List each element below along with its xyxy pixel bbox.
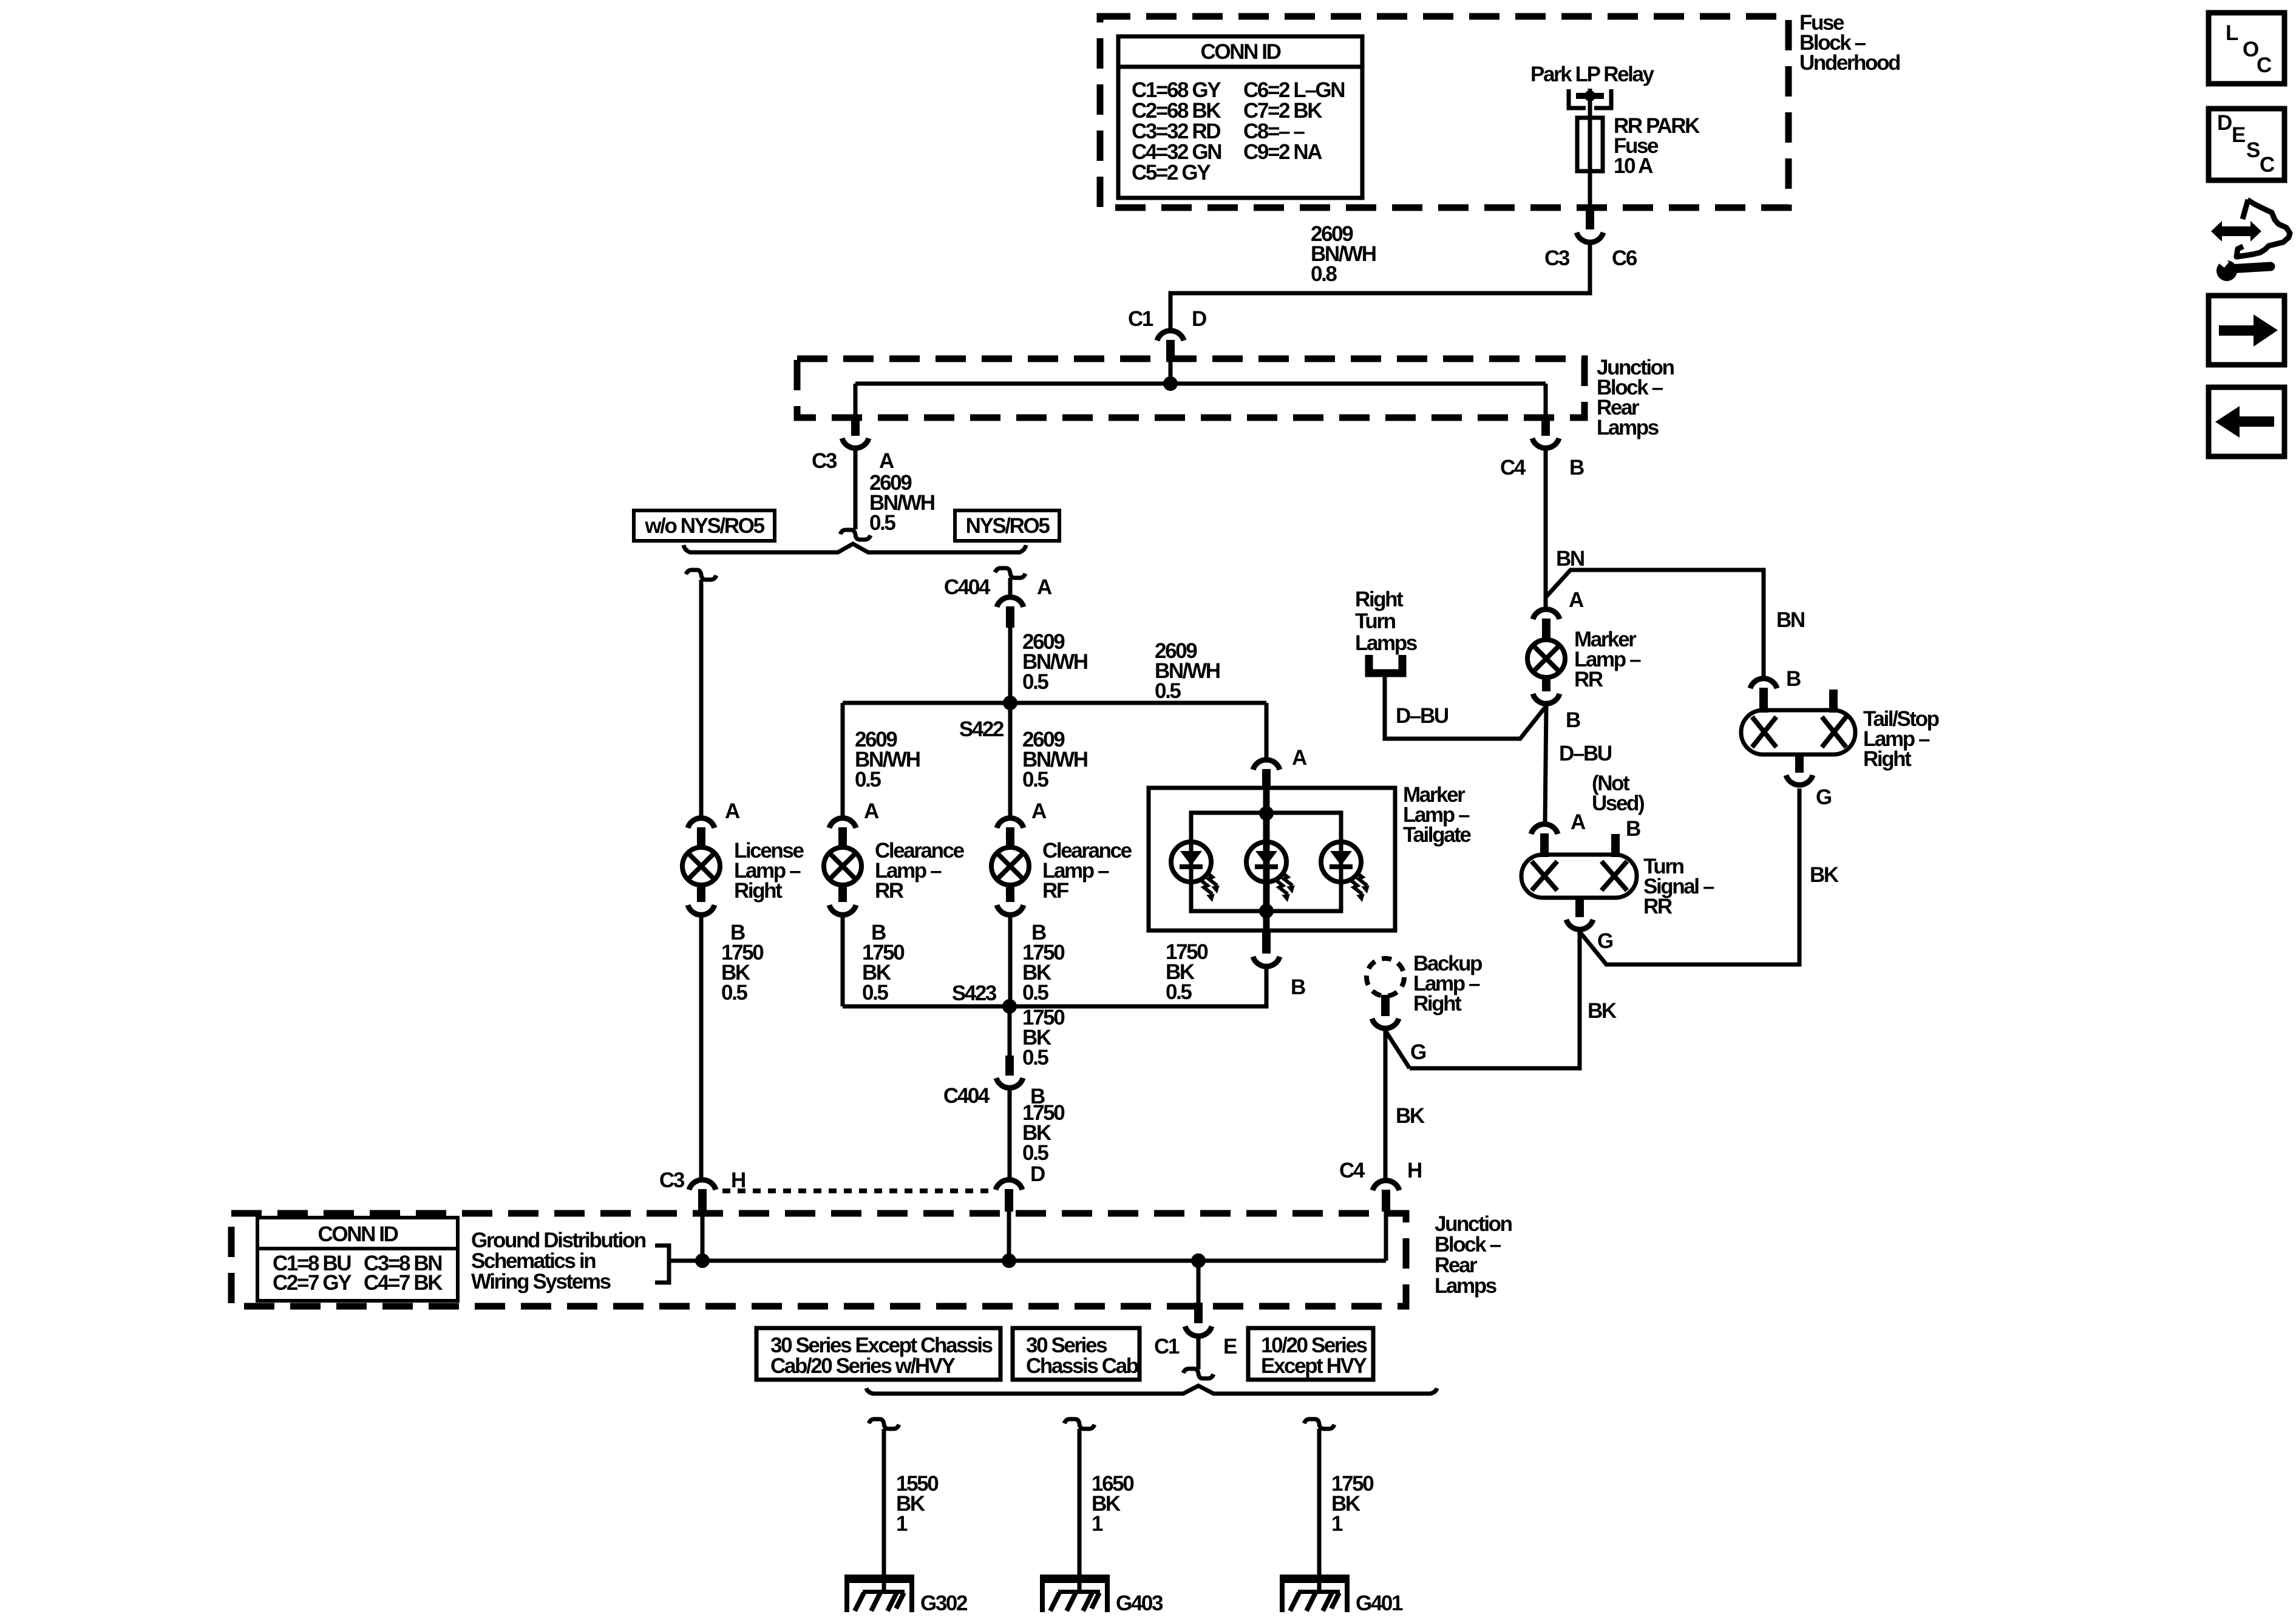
svg-text:G403: G403 [1116,1592,1163,1615]
svg-text:0.5: 0.5 [1166,980,1192,1004]
LED emission arrows [1356,872,1367,886]
svg-text:A: A [1031,799,1047,823]
svg-text:C4: C4 [1500,456,1526,480]
svg-text:C3: C3 [812,449,837,473]
break on ground branch G401 [1304,1419,1334,1429]
LED lamp element at x=1962 [1171,842,1211,882]
inter-connector dotted line C3/H to C404/D [722,1188,993,1193]
ground G403 [1040,1575,1110,1579]
svg-text:RR: RR [875,879,904,903]
break before option split [840,530,871,540]
junction block - rear lamps (top dashed enclosure) [797,359,1584,418]
svg-text:C4: C4 [1339,1159,1365,1182]
lamp License Lamp - Right [688,818,715,828]
svg-text:D: D [1192,307,1206,331]
break on ground branch G302 [869,1419,899,1429]
svg-text:Right: Right [734,879,783,903]
svg-text:A: A [725,799,740,823]
svg-text:Turn: Turn [1355,609,1396,633]
svg-text:G401: G401 [1356,1592,1403,1615]
splice S422 [1003,696,1017,710]
break below C1/E [1183,1369,1214,1378]
wire S422 down to clearance lamp RF [1008,703,1013,816]
svg-text:A: A [1037,575,1052,599]
icon previous-page arrow (left) [2209,387,2284,456]
ground G401 [1280,1575,1350,1579]
wire C4/B down to marker lamp RR (BN) [1544,450,1548,608]
fuse block - underhood (dashed enclosure) [1100,16,1788,208]
svg-text:BN: BN [1556,547,1584,571]
svg-text:G: G [1816,785,1832,809]
pin stub right (tail/stop) [1829,690,1838,713]
svg-text:E: E [1223,1335,1237,1358]
svg-text:C1: C1 [1128,307,1153,331]
svg-text:G302: G302 [920,1592,968,1615]
svg-text:0.8: 0.8 [1311,262,1337,286]
svg-text:CONN ID: CONN ID [1201,40,1281,64]
node at C3/H [695,1253,710,1268]
svg-text:G: G [1597,929,1613,953]
wire marker RR to turn signal A (D-BU) [1545,706,1546,822]
svg-text:BK: BK [1396,1104,1425,1128]
svg-text:0.5: 0.5 [1022,1046,1048,1070]
reference bracket to ground distribution [655,1246,669,1283]
svg-text:0.5: 0.5 [1022,670,1048,694]
svg-text:A: A [879,449,894,473]
svg-text:S422: S422 [959,717,1004,741]
wire backup G to BK net [1385,1031,1410,1068]
svg-text:Underhood: Underhood [1799,51,1900,75]
ground G302 [844,1575,914,1579]
wire 1650 BK 1 to G403 [1078,1429,1082,1591]
connector A turn signal RR [1531,824,1558,834]
lamp Tail/Stop Lamp - Right (dual filament) [1741,710,1855,754]
svg-text:Tailgate: Tailgate [1403,823,1471,847]
svg-text:RF: RF [1042,879,1069,903]
svg-text:Right: Right [1413,992,1462,1015]
svg-text:C6: C6 [1612,246,1637,270]
icon LOC box [2209,13,2284,84]
option label box 30 Series Except Chassis Cab/20 Series w/HVY [756,1328,1000,1380]
wire bus to C4/B exit [1544,384,1548,418]
LED lamp element at x=2086 [1246,842,1286,882]
option split bracket (w/o NYS/RO5 vs NYS/RO5) [684,544,1026,552]
svg-text:Cab/20 Series w/HVY: Cab/20 Series w/HVY [770,1354,956,1378]
connector G backup lamp [1381,995,1390,1016]
break on right option branch [995,568,1025,578]
CONN ID table (fuse block) [1118,36,1362,198]
svg-text:BK: BK [1588,999,1617,1023]
junction block - rear lamps (bottom dashed enclosure) [231,1213,1406,1306]
svg-text:B: B [1626,817,1640,841]
wire splice branch S422 horizontal [843,701,1266,705]
svg-text:Except HVY: Except HVY [1261,1354,1367,1378]
fuse RR PARK 10 A [1588,118,1592,171]
svg-text:B: B [1291,975,1305,999]
svg-text:C: C [2260,153,2275,177]
svg-text:C404: C404 [943,1084,990,1108]
off-page connector Right Turn Lamps [1369,655,1402,673]
node at C1/E drop [1191,1253,1206,1268]
connector A marker lamp tailgate [1253,760,1280,770]
option label box NYS/RO5 [955,510,1059,541]
svg-text:C1: C1 [1154,1335,1180,1358]
icon next-page arrow (right) [2209,296,2284,365]
svg-text:C2=7 GY: C2=7 GY [273,1271,352,1295]
connector C4/B (junction block output right) [1541,416,1550,436]
wire C4/H to ground bus [1384,1212,1388,1261]
connector C1/E [1194,1303,1203,1323]
connector B tail/stop lamp [1750,679,1777,688]
svg-text:0.5: 0.5 [1022,1141,1048,1165]
svg-text:1: 1 [896,1512,908,1536]
svg-text:Lamps: Lamps [1355,631,1418,655]
svg-text:CONN ID: CONN ID [318,1222,398,1246]
LED emission arrows [1282,872,1292,886]
svg-text:NYS/RO5: NYS/RO5 [966,514,1050,538]
internal bus wire of junction block [855,382,1546,386]
svg-text:Used): Used) [1592,792,1644,815]
wire turn signal G to tail/stop G (BK) [1580,788,1799,964]
node at C404/D [1002,1253,1016,1268]
break on ground branch G403 [1064,1419,1095,1429]
svg-text:D–BU: D–BU [1396,704,1449,728]
svg-text:Right: Right [1863,747,1912,771]
connector B marker lamp tailgate [1262,931,1271,954]
svg-text:L: L [2226,21,2238,45]
svg-text:H: H [1407,1159,1421,1182]
wire fuse to connector C3/C6 [1588,171,1592,212]
wire C3/H to ground bus [701,1212,705,1261]
svg-text:Lamps: Lamps [1597,416,1659,439]
svg-text:C3: C3 [1544,246,1570,270]
lamp Clearance Lamp - RF [997,818,1024,828]
svg-text:S: S [2246,138,2260,162]
connector C404/D [996,1180,1022,1190]
wire turn signal G down (BK) [1410,932,1580,1068]
wire bus to C3/A exit [854,384,858,418]
svg-text:C3: C3 [659,1168,685,1192]
connector C3/A (junction block output left) [851,416,860,436]
LED emission arrows [1206,872,1217,886]
connector G tail/stop lamp [1795,754,1804,773]
svg-text:0.5: 0.5 [1155,679,1181,703]
wire S422 down to clearance lamp RR [841,703,845,816]
wire 2609 BN/WH 0.5 from C404/A to S422 [1008,628,1013,703]
wire 1550 BK 1 to G302 [882,1429,886,1591]
svg-text:0.5: 0.5 [869,511,895,535]
wire backup G to C4/H (BK) [1384,1031,1388,1179]
svg-text:Chassis Cab: Chassis Cab [1026,1354,1138,1378]
svg-text:Lamps: Lamps [1435,1274,1497,1298]
wire BN branch to tail/stop lamp [1546,570,1764,677]
wire S422 to marker lamp tailgate [1265,703,1269,758]
svg-text:D: D [2217,111,2232,135]
svg-text:A: A [864,799,879,823]
wire S423 to C404/B [1008,1006,1012,1057]
svg-text:0.5: 0.5 [1022,981,1048,1005]
svg-text:1: 1 [1331,1512,1343,1536]
option label box 30 Series Chassis Cab [1013,1328,1140,1380]
wire C404/B to C404/D, circuit 1750 BK 0.5 [1008,1090,1012,1178]
svg-text:w/o NYS/RO5: w/o NYS/RO5 [644,514,764,538]
ground option split brace [866,1386,1437,1394]
wire 1750 BK 1 to G401 [1317,1429,1322,1591]
LED lamp element at x=2209 [1321,842,1361,882]
svg-text:A: A [1571,810,1586,834]
svg-text:C404: C404 [944,575,991,599]
svg-text:D–BU: D–BU [1559,742,1612,765]
wire clearance RR to S423 bus [841,917,845,1006]
option label box 10/20 Series Except HVY [1248,1328,1373,1380]
wire C404/D to ground bus [1007,1212,1011,1261]
svg-text:B: B [1786,667,1801,691]
svg-text:BK: BK [1810,863,1839,887]
svg-text:G: G [1410,1040,1426,1064]
lamp Backup Lamp - Right (dashed, reference) [1367,958,1404,996]
svg-text:A: A [1292,746,1307,770]
wire relay to fuse [1588,96,1592,119]
lamp Turn Signal - RR (dual filament) [1521,855,1637,898]
relay Park LP Relay (contact symbol) [1569,89,1586,108]
pin B stub (not used) [1611,834,1620,857]
icon vehicle outline with arrow and wrench [2211,221,2261,242]
svg-text:0.5: 0.5 [862,981,888,1005]
icon DESC box [2209,109,2284,180]
svg-text:B: B [1569,456,1584,480]
wire into connector C404/A [1008,578,1013,596]
wire 2609 BN/WH 0.8 from C3/C6 to junction block C1/D [1170,245,1590,329]
svg-text:0.5: 0.5 [855,768,881,792]
option label box w/o NYS/RO5 [634,510,775,541]
svg-text:B: B [1566,708,1580,732]
svg-text:S423: S423 [952,981,997,1005]
wire C1/D into bus [1169,361,1173,384]
svg-text:10 A: 10 A [1614,154,1653,178]
connector G turn signal RR [1575,898,1584,917]
wire marker RR to right turn lamps feed (D-BU) [1385,676,1546,739]
svg-text:A: A [1569,588,1584,612]
svg-text:RR: RR [1574,668,1603,691]
svg-text:Wiring Systems: Wiring Systems [471,1270,611,1293]
connector C3/C6 (fuse block output) [1586,211,1594,229]
wire left branch to license lamp [699,580,704,816]
svg-text:C: C [2257,53,2272,77]
svg-text:E: E [2232,123,2245,147]
break on left option branch [686,570,716,580]
CONN ID table (junction block) [257,1218,458,1301]
svg-text:1: 1 [1092,1512,1103,1536]
svg-text:BN: BN [1776,608,1804,632]
wire clearance RF to S423 [1008,917,1013,1006]
svg-text:D: D [1030,1162,1045,1186]
svg-text:0.5: 0.5 [721,981,747,1005]
svg-text:C9=2 NA: C9=2 NA [1243,140,1322,164]
connector C404/B [1005,1056,1014,1076]
svg-text:RR: RR [1643,895,1673,918]
wire license lamp to C3/H [699,917,704,1178]
node bus junction at C1/D [1163,376,1178,391]
svg-text:0.5: 0.5 [1022,768,1048,792]
wire S423 bus horizontal [843,1005,1010,1009]
svg-text:C4=7 BK: C4=7 BK [364,1271,443,1295]
lamp Clearance Lamp - RR [829,818,856,828]
ground bus inside junction block [669,1259,1386,1263]
wire tailgate lamp to S423 [1010,969,1266,1006]
inner parallel bus of tailgate lamp [1191,813,1341,911]
lamp Marker Lamp - RR [1533,609,1560,619]
wire ground bus to C1/E [1197,1261,1201,1304]
svg-text:Right: Right [1355,588,1404,611]
splice S423 [1002,999,1017,1014]
svg-text:Park LP Relay: Park LP Relay [1530,63,1655,86]
wire 2609 BN/WH 0.5 below C3/A [854,450,858,529]
marker lamp tailgate enclosure box [1149,788,1395,931]
svg-text:C5=2 GY: C5=2 GY [1132,161,1211,185]
connector C404/A [997,597,1024,607]
